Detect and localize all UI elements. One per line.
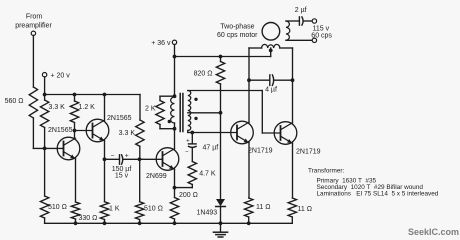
wire Q2 base (75, 130, 93, 132)
wire +20v down (44, 77, 46, 100)
svg-text:preamplifier: preamplifier (15, 23, 52, 30)
node base Q1 junction (43, 147, 47, 151)
node +36v terminal (151, 40, 176, 47)
node 1.2K top junction (73, 93, 77, 97)
wire secondary bottom to left base (188, 131, 237, 133)
transistor Q5 2N1719 right (274, 122, 320, 156)
svg-text:2 µf: 2 µf (295, 7, 307, 14)
node +20v terminal (42, 73, 70, 80)
svg-text:1 K: 1 K (109, 205, 120, 212)
resistor R-1K (100, 202, 120, 220)
capacitor C-150uf (105, 152, 140, 179)
transformer T1 core (180, 94, 183, 132)
node primary top junction (173, 94, 177, 98)
resistor R-11-right (288, 198, 312, 217)
svg-text:+: + (125, 152, 129, 159)
transistor Q3 2N699 (146, 148, 179, 181)
motor line winding (286, 21, 290, 40)
wire secondary center tap (188, 112, 221, 114)
svg-text:2N1565: 2N1565 (48, 127, 73, 134)
wire Q4 emitter (248, 143, 250, 198)
wire line bottom (286, 39, 312, 41)
svg-text:4 µf: 4 µf (265, 86, 277, 93)
node 820 top junction (219, 55, 223, 59)
label watermark (408, 227, 459, 237)
svg-text:2N699: 2N699 (146, 173, 167, 180)
node primary bottom junction (173, 127, 177, 131)
svg-text:11 Ω: 11 Ω (256, 204, 270, 211)
node 150uf left junction (103, 157, 107, 161)
svg-text:From: From (26, 14, 43, 21)
svg-text:115 v: 115 v (313, 25, 330, 32)
resistor R-1.2K (70, 95, 95, 123)
wire 510 to ground rail (44, 218, 46, 223)
wire 510-2 to rail (138, 220, 142, 226)
wire Q3 collector (174, 129, 176, 149)
capacitor C-47uf (185, 133, 218, 162)
ground (213, 223, 227, 237)
node +36v rail junction (173, 55, 177, 59)
wire input to base node (33, 118, 63, 148)
diode D1 1N493 (197, 199, 226, 223)
wire 2K bottom (160, 128, 175, 130)
wire +20v rail (45, 94, 140, 96)
svg-text:+: + (186, 138, 190, 144)
wire 4.7K to emitter node (175, 185, 193, 188)
wire input vertical (32, 36, 34, 88)
transformer T1 secondary winding (188, 91, 191, 131)
svg-text:560 Ω: 560 Ω (5, 98, 24, 105)
wire ground rail (45, 222, 293, 224)
resistor R-2K (145, 96, 164, 129)
motor M1 two-phase (217, 23, 280, 41)
wire 3.3K to base node (44, 128, 46, 149)
svg-text:2N1565: 2N1565 (107, 115, 132, 122)
svg-text:2 K: 2 K (145, 105, 156, 112)
wire Q4 collector rail (248, 48, 250, 122)
node 150uf right junction (138, 157, 142, 161)
wire base 2N699 (140, 158, 163, 160)
resistor R-3.3K-1 (40, 100, 65, 128)
resistor R-200 (170, 192, 198, 219)
label 115v 60cps (311, 25, 332, 39)
svg-text:2N1719: 2N1719 (248, 147, 273, 154)
wire Q5 emitter (292, 143, 294, 198)
svg-text:510 Ω: 510 Ω (144, 205, 163, 212)
svg-text:3.3 K: 3.3 K (49, 104, 66, 111)
wire 11R to rail (291, 217, 293, 223)
resistor R-4.7K (188, 162, 216, 185)
svg-text:Two-phase: Two-phase (220, 24, 254, 31)
wire +36v down (174, 45, 176, 97)
wire +36v rail (175, 56, 271, 58)
node Q2 base junction (73, 129, 77, 133)
wire center tap to +36 rail (270, 48, 272, 57)
svg-text:11 Ω: 11 Ω (298, 206, 312, 213)
label transformer notes (308, 168, 439, 198)
node 4uf left junction (247, 78, 251, 82)
svg-text:+ 20 v: + 20 v (51, 73, 71, 80)
wire 11L to rail (247, 217, 251, 225)
node 115v bottom terminal (312, 38, 316, 42)
resistor R-820 (194, 57, 225, 85)
wire winding left (249, 47, 262, 49)
resistor R-11-left (245, 198, 271, 217)
svg-text:60 cps motor: 60 cps motor (217, 32, 258, 39)
wire 820 to diode (220, 84, 222, 199)
wire Q3 emitter (174, 169, 176, 197)
wire node to 510-2 (139, 159, 141, 201)
transformer T1 secondary phasing dots (194, 98, 197, 121)
wire Q1 emitter (75, 159, 77, 202)
svg-text:+ 36 v: + 36 v (151, 40, 171, 47)
resistor R-560 (5, 87, 38, 118)
resistor R-510-1 (40, 196, 66, 218)
resistor R-510-2 (135, 202, 162, 220)
node center tap junction (219, 111, 223, 115)
capacitor C-2uf (295, 7, 312, 25)
transistor Q1 2N1565 (48, 127, 80, 160)
transistor Q4 2N1719 left (231, 121, 273, 154)
svg-text:330 Ω: 330 Ω (79, 215, 98, 222)
node 115v top terminal (312, 19, 316, 23)
node input terminal From preamplifier (15, 14, 52, 36)
svg-text:200 Ω: 200 Ω (179, 192, 198, 199)
svg-text:4.7 K: 4.7 K (199, 171, 216, 178)
svg-text:−: − (111, 152, 115, 159)
svg-text:820 Ω: 820 Ω (194, 70, 213, 77)
transformer T1 primary winding (171, 97, 175, 129)
node secondary bottom junction (190, 131, 194, 135)
svg-text:Transformer:: Transformer: (308, 168, 345, 175)
wire +20v rail corner down (139, 95, 141, 121)
svg-text:1.2 K: 1.2 K (79, 104, 96, 111)
wire Q5 collector rail (292, 48, 294, 123)
svg-text:47 µf: 47 µf (203, 144, 219, 151)
svg-text:−: − (185, 150, 189, 156)
wire Q2 collector (103, 93, 107, 121)
wire Q2 emitter (104, 141, 106, 202)
node emitter junction (173, 186, 177, 190)
svg-text:SeekIC.com: SeekIC.com (408, 227, 459, 237)
transistor Q2 2N1565 (86, 115, 131, 142)
wire 2K top (160, 95, 175, 97)
wire 200 to rail (173, 219, 177, 225)
node winding center tap (269, 49, 273, 53)
svg-text:510 Ω: 510 Ω (48, 204, 67, 211)
wire secondary top to right base (188, 91, 281, 134)
svg-text:Laminations EI 75 SL14 5 x: Laminations EI 75 SL14 5 x 5 interleaved (317, 190, 439, 197)
resistor R-330 (71, 202, 97, 222)
wire 1K to rail (103, 220, 107, 226)
node 4uf right junction (291, 78, 295, 82)
resistor R-3.3K-2 (119, 120, 144, 146)
wire winding right (280, 47, 293, 49)
wire 330 to rail (74, 219, 78, 225)
transformer T1 primary phasing dot (168, 120, 171, 123)
node +20v rail junction (43, 93, 47, 97)
svg-text:2N1719: 2N1719 (296, 148, 321, 155)
svg-text:1N493: 1N493 (197, 209, 218, 216)
wire 1.2K to Q1 collector (74, 123, 76, 139)
wire 3.3K2 to node (139, 146, 141, 159)
svg-text:3.3 K: 3.3 K (119, 130, 136, 137)
svg-text:15 v: 15 v (115, 173, 129, 180)
wire line top (286, 20, 299, 22)
motor control winding (262, 44, 280, 48)
svg-text:60 cps: 60 cps (311, 33, 332, 40)
wire base node to 510 (44, 148, 46, 196)
node ground junction (219, 221, 223, 225)
capacitor C-4uf (249, 75, 293, 93)
